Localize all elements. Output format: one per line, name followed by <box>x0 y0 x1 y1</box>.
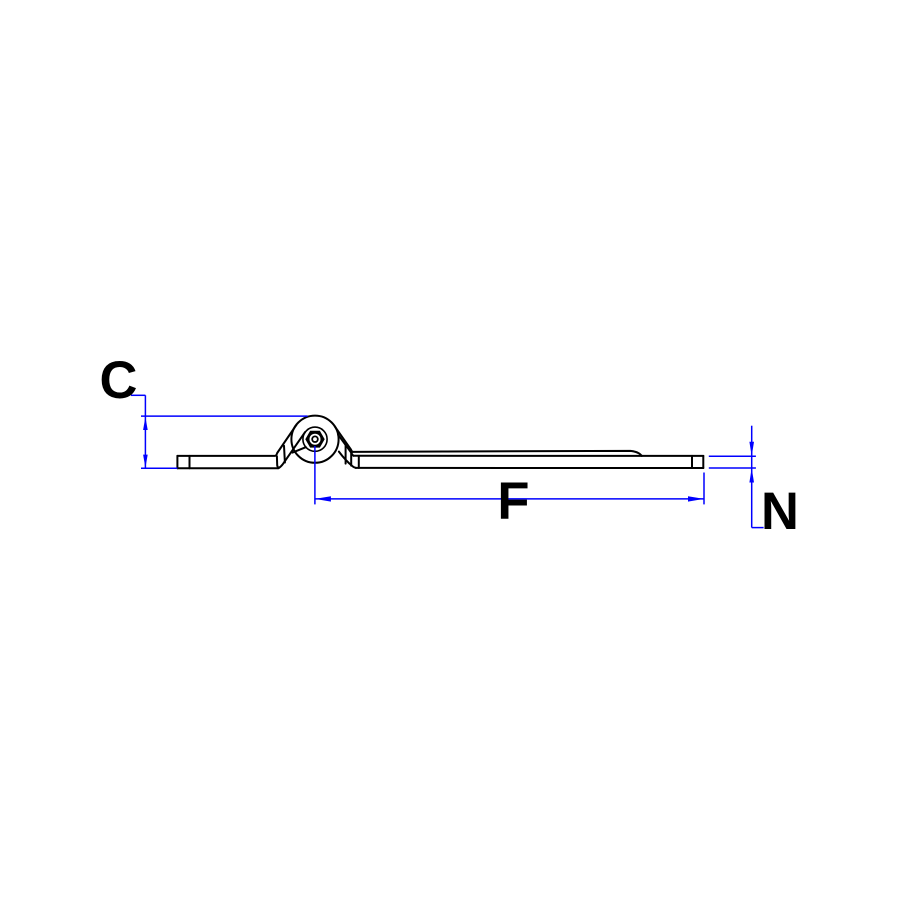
dim C bottom extension line <box>141 467 177 469</box>
dim C arrow up <box>143 417 148 430</box>
dim F line <box>315 498 704 500</box>
left leaf bottom <box>177 467 278 469</box>
svg-text:C: C <box>100 351 138 410</box>
svg-text:F: F <box>497 472 529 531</box>
dim N leader <box>752 527 764 529</box>
pin inner black ring <box>311 436 318 443</box>
left leaf end cap <box>176 456 178 468</box>
right leaf bottom <box>356 467 704 469</box>
right curl band inner slant <box>338 435 353 456</box>
dim N vertical line <box>751 426 753 528</box>
svg-text:N: N <box>761 482 799 541</box>
right leaf end cap <box>702 456 704 468</box>
left leaf outline <box>177 425 296 456</box>
dim N top extension line <box>709 455 756 457</box>
left curl edge vertical <box>277 456 279 468</box>
dim N bottom extension line <box>709 467 756 469</box>
dim F centerline <box>314 446 316 504</box>
left curl bottom to pin tangent <box>278 432 305 468</box>
pin outer circle <box>303 427 327 451</box>
pin washer white ring <box>310 434 321 445</box>
knuckle outer circle <box>291 416 338 463</box>
dim F right extension line <box>703 473 705 505</box>
left curl wedge line <box>293 447 306 452</box>
right leaf back top line with chamfer <box>353 451 642 456</box>
dim N arrow up <box>749 468 754 483</box>
dim C arrow down <box>143 455 148 468</box>
right curl vertical V2 <box>350 452 352 465</box>
dim N arrow down <box>749 442 754 457</box>
dim F arrow right <box>688 496 704 501</box>
right leaf divider <box>691 456 693 468</box>
dim C top extension line <box>141 415 308 417</box>
dim C leader <box>131 394 146 396</box>
right curl vertical V3 <box>358 456 360 468</box>
left leaf divider <box>189 456 191 468</box>
dim F arrow left <box>315 496 331 501</box>
left curl band inner edge <box>283 446 286 463</box>
right curl vertical V1 <box>345 446 347 464</box>
dim C vertical line <box>144 395 146 468</box>
pin hex nut <box>305 431 324 448</box>
right curl arc to bottom <box>339 452 356 468</box>
right curl outer slant <box>335 426 353 451</box>
right leaf front top line <box>354 455 704 457</box>
pin center white dot <box>313 437 317 441</box>
